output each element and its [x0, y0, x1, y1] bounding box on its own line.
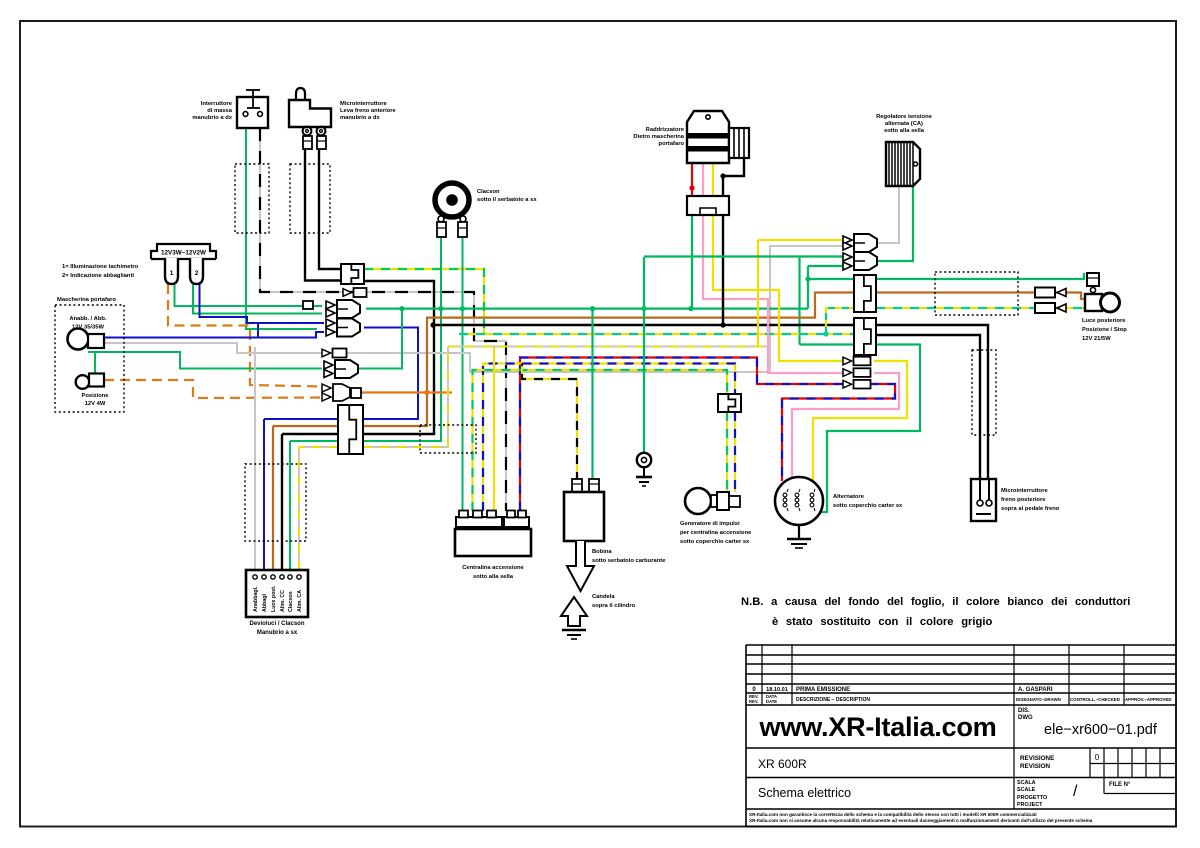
svg-text:Posizione / Stop: Posizione / Stop [1082, 327, 1127, 333]
svg-text:REVISIONE: REVISIONE [1020, 755, 1054, 762]
svg-text:Raddrizzatore: Raddrizzatore [646, 127, 685, 133]
svg-text:Schema elettrico: Schema elettrico [758, 786, 851, 800]
svg-text:di massa: di massa [207, 108, 233, 114]
svg-text:ele−xr600−01.pdf: ele−xr600−01.pdf [1044, 722, 1158, 738]
svg-text:Anabb. / Abb.: Anabb. / Abb. [69, 316, 107, 322]
svg-text:Manubrio a sx: Manubrio a sx [257, 630, 298, 636]
svg-text:12V3W−12V2W: 12V3W−12V2W [161, 250, 206, 257]
svg-text:sotto alla sella: sotto alla sella [884, 128, 925, 134]
svg-text:Posizione: Posizione [81, 393, 109, 399]
svg-text:18.10.01: 18.10.01 [766, 687, 788, 693]
svg-text:N.B. a causa del fondo de: N.B. a causa del fondo del foglio, il co… [741, 596, 1130, 608]
svg-text:SCALE: SCALE [1017, 787, 1036, 793]
svg-text:www.XR-Italia.com: www.XR-Italia.com [758, 711, 996, 742]
svg-text:sopra al pedale freno: sopra al pedale freno [1001, 506, 1060, 512]
svg-text:/: / [1073, 783, 1078, 800]
svg-text:Interruttore: Interruttore [201, 101, 233, 107]
svg-text:0: 0 [1095, 753, 1100, 762]
svg-text:Dietro mascherina: Dietro mascherina [633, 134, 684, 140]
svg-text:Leva freno anteriore: Leva freno anteriore [340, 108, 397, 114]
svg-text:PROJECT: PROJECT [1017, 802, 1043, 808]
svg-text:Alternatore: Alternatore [833, 494, 865, 500]
svg-text:DESCRIZIONE − DESCRIPTION: DESCRIZIONE − DESCRIPTION [796, 697, 870, 703]
svg-text:Luce posteriore: Luce posteriore [1082, 318, 1126, 324]
svg-text:portafaro: portafaro [659, 141, 685, 147]
svg-text:sotto coperchio carter sx: sotto coperchio carter sx [680, 539, 750, 545]
svg-text:PRIMA EMISSIONE: PRIMA EMISSIONE [796, 687, 850, 693]
svg-text:REV.: REV. [749, 699, 758, 704]
svg-text:Alim. CA: Alim. CA [297, 590, 303, 612]
svg-text:12V 21/5W: 12V 21/5W [1082, 336, 1111, 342]
svg-text:Candela: Candela [592, 594, 615, 600]
svg-text:2: 2 [195, 270, 199, 277]
svg-text:Bobina: Bobina [592, 549, 612, 555]
svg-text:Microinterruttore: Microinterruttore [340, 101, 387, 107]
svg-text:12V 35/35W: 12V 35/35W [72, 325, 104, 331]
svg-text:FILE N°: FILE N° [1109, 782, 1131, 788]
svg-text:Regolatore tensione: Regolatore tensione [876, 114, 933, 120]
svg-text:manubrio a dx: manubrio a dx [192, 115, 232, 121]
svg-text:alternata (CA): alternata (CA) [885, 121, 923, 127]
svg-text:12V 4W: 12V 4W [85, 401, 106, 407]
svg-text:Anabbagl.: Anabbagl. [253, 586, 259, 612]
svg-text:XR 600R: XR 600R [758, 757, 807, 771]
svg-text:manubrio a dx: manubrio a dx [340, 115, 380, 121]
svg-text:Centralina accensione: Centralina accensione [462, 565, 524, 571]
svg-text:2= Indicazione abbaglianti: 2= Indicazione abbaglianti [62, 273, 134, 279]
svg-text:Mascherina portafaro: Mascherina portafaro [57, 297, 116, 303]
svg-text:sotto serbatoio carburante: sotto serbatoio carburante [592, 558, 666, 564]
svg-text:DATE: DATE [766, 699, 777, 704]
svg-text:XR-Italia.com non garantisce: XR-Italia.com non garantisce la corrette… [749, 812, 1037, 817]
svg-text:Luce post.: Luce post. [271, 585, 277, 612]
svg-text:SCALA: SCALA [1017, 780, 1036, 786]
svg-text:sotto coperchio carter sx: sotto coperchio carter sx [833, 503, 903, 509]
svg-text:è stato sostituito con il: è stato sostituito con il colore grigio [772, 616, 992, 628]
svg-text:REVISION: REVISION [1020, 763, 1051, 770]
svg-text:Generatore di impulsi: Generatore di impulsi [680, 521, 740, 527]
svg-text:DWG: DWG [1018, 715, 1033, 721]
svg-text:Microinterruttore: Microinterruttore [1001, 488, 1048, 494]
svg-text:Abbagl: Abbagl [262, 594, 268, 612]
svg-text:A. GASPARI: A. GASPARI [1018, 687, 1053, 693]
svg-text:1= Illuminazione tachimetro: 1= Illuminazione tachimetro [62, 264, 139, 270]
svg-text:CONTROLL.−CHECKED: CONTROLL.−CHECKED [1070, 697, 1120, 702]
svg-text:1: 1 [170, 270, 174, 277]
svg-text:Clacson: Clacson [477, 189, 500, 195]
svg-text:APPROV.−APPROVED: APPROV.−APPROVED [1125, 697, 1172, 702]
svg-text:Clacson: Clacson [288, 591, 294, 612]
svg-text:DISEGNATO−DRAWN: DISEGNATO−DRAWN [1016, 697, 1061, 702]
svg-text:XR-Italia.com non si assume: XR-Italia.com non si assume alcuna respo… [749, 818, 1093, 823]
svg-text:sotto il serbatoio a sx: sotto il serbatoio a sx [477, 197, 537, 203]
svg-text:sopra il cilindro: sopra il cilindro [592, 603, 636, 609]
svg-text:Devioluci / Clacson: Devioluci / Clacson [249, 621, 304, 627]
svg-text:Alim. CC: Alim. CC [280, 590, 286, 612]
svg-text:DIS.: DIS. [1018, 708, 1030, 714]
svg-text:PROGETTO: PROGETTO [1017, 795, 1047, 801]
svg-text:per centralina accensione: per centralina accensione [680, 530, 752, 536]
svg-text:freno posteriore: freno posteriore [1001, 497, 1046, 503]
svg-text:sotto alla sella: sotto alla sella [473, 574, 514, 580]
